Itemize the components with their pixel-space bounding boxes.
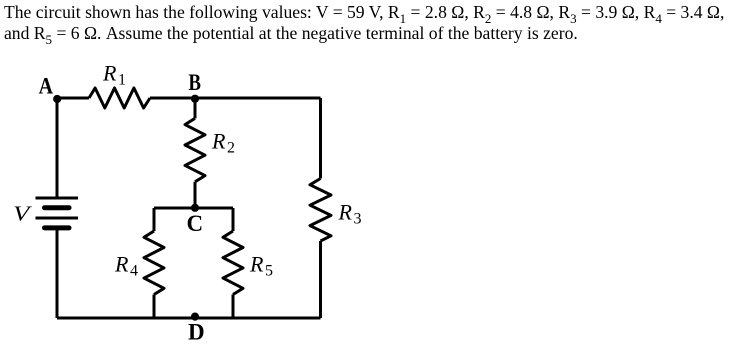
battery short thick plate 2	[45, 225, 70, 230]
resistor R4	[144, 231, 164, 295]
svg-text:R1: R1	[102, 60, 126, 88]
wire top: R1 to top-right corner through node B	[150, 97, 321, 100]
problem statement line 1	[4, 2, 724, 23]
battery long plate 2	[36, 217, 79, 220]
resistor R3	[310, 179, 331, 242]
wire right side upper	[319, 98, 322, 179]
svg-text:A: A	[39, 74, 54, 99]
node A	[53, 95, 61, 103]
wire C horizontal bar	[154, 207, 233, 210]
svg-text:R5: R5	[249, 252, 273, 280]
wire R4 to bottom	[153, 295, 156, 319]
problem statement line 2	[4, 23, 578, 44]
wire bottom	[57, 317, 321, 320]
node C	[191, 204, 199, 212]
wire left side lower (battery to bottom)	[56, 230, 59, 319]
node D	[191, 313, 199, 321]
battery long plate 1	[36, 197, 79, 200]
wire R5 to bottom	[232, 295, 235, 319]
wire left side upper (A to battery)	[56, 98, 59, 197]
svg-text:C: C	[187, 211, 204, 236]
wire top: node A to R1	[57, 97, 89, 100]
svg-text:R4: R4	[114, 252, 138, 280]
node B	[191, 95, 199, 103]
battery V plates	[36, 198, 79, 228]
battery short thick plate 1	[45, 205, 70, 210]
svg-text:V: V	[13, 201, 32, 225]
wire C bar to R4	[153, 208, 156, 231]
wire R2 to node C	[194, 182, 197, 208]
svg-text:R3: R3	[338, 200, 362, 228]
resistor R1	[89, 88, 150, 108]
svg-text:R2: R2	[211, 129, 235, 157]
resistor R5	[223, 231, 243, 295]
svg-text:B: B	[188, 70, 201, 95]
resistor R2	[185, 118, 205, 182]
wire C bar to R5	[232, 208, 235, 231]
wire B to R2	[194, 98, 197, 118]
wire right side lower	[319, 241, 322, 318]
svg-text:D: D	[188, 319, 205, 344]
